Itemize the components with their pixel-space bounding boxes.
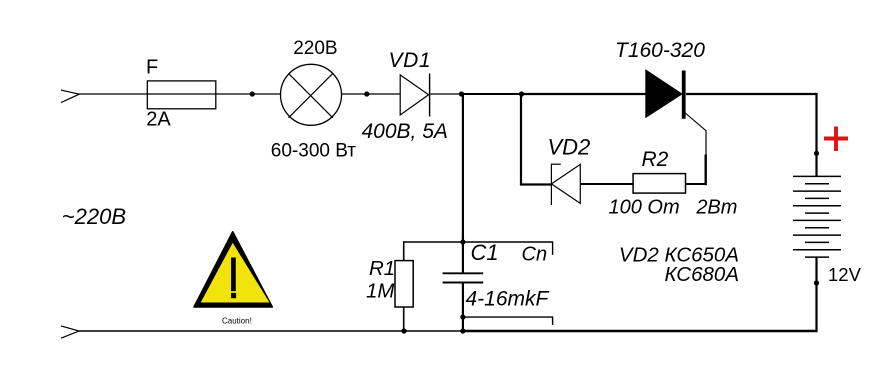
svg-text:220В: 220В (293, 38, 337, 59)
svg-text:R2: R2 (642, 148, 669, 171)
svg-text:VD1: VD1 (389, 49, 432, 72)
svg-text:C1: C1 (471, 240, 499, 265)
svg-text:4-16mkF: 4-16mkF (466, 287, 550, 310)
svg-text:VD2: VD2 (548, 135, 591, 160)
svg-text:12V: 12V (828, 264, 862, 285)
svg-text:Caution!: Caution! (222, 316, 252, 325)
svg-text:1M: 1M (366, 280, 395, 303)
svg-text:КС680А: КС680А (664, 263, 739, 286)
svg-text:T160-320: T160-320 (615, 39, 705, 62)
svg-text:~220В: ~220В (62, 204, 126, 229)
svg-text:R1: R1 (369, 257, 395, 280)
svg-text:2A: 2A (146, 109, 171, 131)
svg-text:F: F (146, 57, 158, 79)
svg-text:100 Om 2Bm: 100 Om 2Bm (609, 197, 738, 219)
svg-text:400В, 5А: 400В, 5А (362, 120, 448, 143)
svg-text:Cn: Cn (522, 243, 548, 265)
svg-text:60-300 Вт: 60-300 Вт (271, 140, 356, 161)
